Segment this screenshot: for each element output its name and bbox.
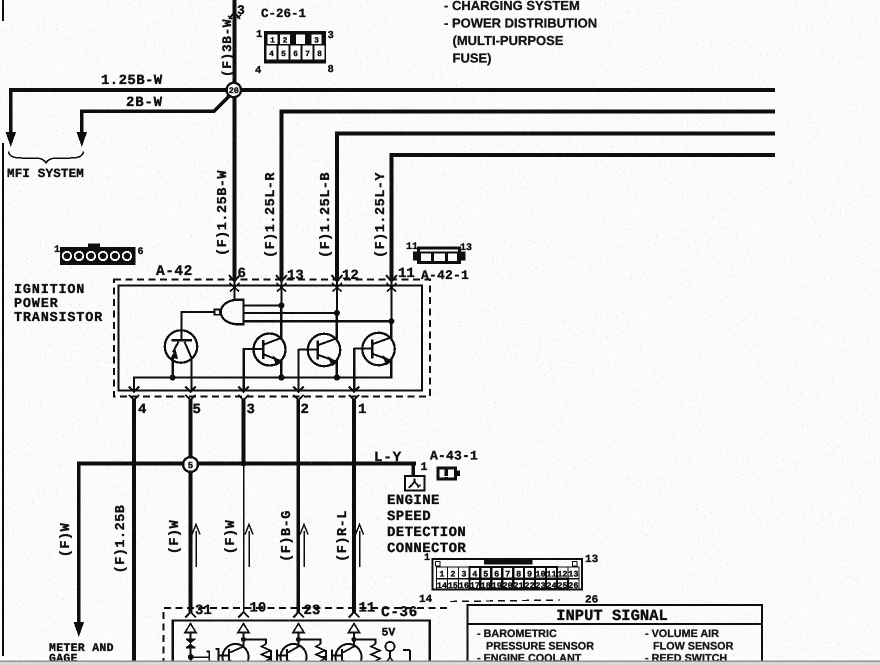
gate input square — [215, 309, 220, 314]
wire to MFI (left drop 2) — [77, 110, 88, 148]
connector A-42 icon — [54, 244, 144, 266]
transistor Q5 — [223, 644, 249, 665]
input arrow pin 31 inside C-36 — [185, 624, 196, 639]
wire pin2 down (F)B-G — [296, 399, 300, 614]
splice junction 5 — [183, 457, 198, 472]
Q4 collector wire from node D — [390, 321, 392, 339]
transistor Q7 — [336, 644, 362, 665]
pin number 1 — [358, 402, 366, 418]
wire label (F)1.25B — [114, 505, 129, 574]
node C junction dot — [334, 310, 340, 316]
node F junction dot (Q3 emitter/bus) — [334, 374, 340, 380]
MFI SYSTEM label — [7, 167, 84, 181]
INPUT SIGNAL entries — [477, 628, 734, 665]
zener diode pair on pin31 wire — [186, 638, 196, 655]
transistor Q2 — [254, 334, 286, 366]
legend text: charging system / power distribution — [444, 0, 597, 66]
pin 11 entry mark — [349, 612, 360, 618]
switch contact symbol near Q5 — [207, 649, 230, 663]
pin 23 entry mark — [293, 612, 304, 618]
pin 1 exit mark — [349, 387, 359, 400]
pin number 12 — [342, 268, 359, 284]
pin number 11 — [359, 601, 376, 617]
component name: IGNITION POWER TRANSISTOR — [14, 283, 103, 326]
wire drop to meter gauge — [74, 462, 85, 638]
pin 31 entry mark — [185, 612, 196, 618]
connector C-26-1 — [255, 29, 334, 77]
pin cells row2 — [267, 46, 277, 60]
pin 10 entry mark — [238, 612, 249, 618]
Q1 emitter wire to bus — [171, 356, 173, 379]
node K junction dot (pin11) — [351, 637, 356, 642]
pin 5 exit mark — [185, 387, 195, 400]
pin number 3 (top) — [237, 3, 245, 18]
contact symbol right — [403, 650, 410, 663]
Q3 base wire — [299, 348, 318, 350]
wire label 1.25B-W — [101, 73, 163, 89]
ENGINE SPEED DETECTION CONNECTOR label — [387, 493, 466, 557]
wire label (F)R-L — [336, 510, 351, 562]
node G junction dot (Q1 emitter/bus) — [170, 375, 176, 381]
connector A-43-1 name — [430, 449, 478, 464]
pin 3 exit mark — [238, 387, 248, 400]
page border left lower segment — [2, 143, 4, 656]
node D junction dot — [388, 318, 394, 324]
bottom page edge gray band — [0, 661, 880, 665]
pin number 3 — [247, 402, 255, 418]
node J junction dot (pin23) — [296, 637, 301, 642]
pin31 wire to switch contact — [191, 657, 209, 664]
gate output wire to node B (pin13 line) — [244, 304, 282, 306]
Q4 emitter wire to bus — [390, 360, 392, 379]
Q2 collector wire from node B — [280, 306, 282, 339]
wire pin3 down thick part — [242, 399, 246, 467]
connector A-42 name — [156, 264, 193, 280]
pin number 5 — [193, 402, 201, 418]
node H junction dot — [188, 654, 194, 660]
gate output wire to node D (pin11 line) — [244, 320, 392, 322]
INPUT SIGNAL box — [468, 605, 763, 665]
pin 1 wire inside box — [353, 348, 355, 391]
C-36 connector corner labels — [419, 553, 599, 607]
pin number 23 — [304, 603, 321, 619]
Q6 collector from pin23 node — [297, 639, 299, 648]
wire (F)3B-W vertical from top — [228, 0, 241, 280]
transistor Q6 — [281, 644, 307, 665]
A-42 dashed outline box — [114, 280, 430, 397]
METER AND GAGE label — [49, 642, 114, 665]
transistor Q3 — [308, 334, 340, 366]
wire label 2B-W — [126, 95, 163, 111]
direction arrow on wire 11 — [356, 525, 364, 568]
wire (F)1.25L-B horizontal top — [335, 131, 775, 279]
direction arrow on wire 31 — [192, 525, 200, 568]
Q5 collector from pin10 node — [242, 639, 244, 648]
direction arrow on wire 10 — [245, 525, 253, 568]
Q4 base wire — [354, 347, 374, 349]
Q1 collector wire to pin 5 — [190, 357, 192, 391]
pin number 13 — [287, 268, 304, 284]
pin number 10 — [250, 601, 267, 617]
emitter bus wire — [133, 376, 393, 378]
wire 2B-W horizontal — [80, 94, 231, 113]
pin number 6 — [238, 266, 246, 282]
bus drop to pin 4 — [133, 376, 135, 390]
direction arrow on wire 23 — [300, 525, 308, 568]
Q3 collector wire from node C — [336, 313, 338, 339]
connector A-42-1 name — [421, 268, 469, 283]
wire label (F)B-G — [280, 510, 295, 562]
input arrow pin 23 inside C-36 — [293, 624, 304, 639]
wire label (F)3B-W — [220, 19, 235, 77]
connector A-42-1 icon — [406, 242, 472, 264]
splice junction 20 — [227, 83, 241, 97]
wire (F)1.25L-R horizontal top — [280, 110, 776, 280]
C-36 solid box — [173, 621, 430, 665]
resistor R2 from node J — [299, 640, 326, 665]
C-36 pin grid row 1 pins 1-13 — [437, 567, 579, 580]
node I junction dot (pin10) — [241, 637, 246, 642]
wire pin4 to meter (F)1.25B — [132, 399, 136, 665]
pin 2 wire inside box — [297, 349, 299, 391]
wire label (F)1.25L-B — [319, 172, 334, 258]
resistor R3 from node K — [354, 640, 380, 665]
logic gate U1 — [215, 299, 245, 326]
node E junction dot (Q2 emitter/bus) — [278, 374, 284, 380]
Q2 base wire — [245, 348, 264, 350]
connector C-26-1 label — [261, 7, 306, 21]
pin cells row1 — [268, 35, 278, 45]
pin number 4 — [138, 402, 146, 418]
pin number 11 — [398, 266, 415, 282]
input arrow pin 11 inside C-36 — [349, 624, 360, 639]
5V supply label — [382, 627, 396, 640]
connector C-36 26-pin — [433, 559, 583, 590]
wire label (F)1.25B-W — [216, 170, 231, 256]
wire 1.25B-W horizontal bus — [9, 88, 775, 92]
pin 6 entry arrow — [229, 275, 240, 300]
INPUT SIGNAL title — [556, 607, 668, 625]
contact symbol near Q7 — [321, 650, 342, 664]
A-43-1 terminal symbol — [405, 476, 425, 491]
wire pin3 down thin part (F)W — [243, 466, 245, 614]
input arrow pin 10 inside C-36 — [238, 624, 249, 639]
wire to MFI (left drop 1) — [6, 88, 17, 147]
pin 4 exit mark — [129, 387, 139, 400]
wire (F)1.25L-Y horizontal top — [390, 153, 776, 279]
C-36 dashed outline top — [164, 600, 561, 665]
L-Y wire horizontal — [77, 462, 416, 477]
page border left top segment — [2, 0, 4, 21]
A-42 solid box — [119, 286, 423, 391]
wire label (F)1.25L-Y — [374, 172, 389, 258]
pin 13 entry arrow — [276, 275, 287, 306]
transistor Q4 — [362, 333, 394, 365]
wire label (F)W — [224, 519, 239, 554]
node B junction dot — [278, 303, 284, 309]
connector A-43-1 icon — [437, 467, 461, 481]
pin 2 exit mark — [293, 387, 303, 400]
gate output wire to node C (pin12 line) — [244, 312, 337, 314]
pin 11 entry arrow — [386, 275, 397, 322]
transistor Q1 — [165, 330, 197, 362]
contact symbol near Q6 — [266, 650, 287, 664]
Q2 emitter wire to bus — [280, 360, 282, 379]
Q7 collector from pin11 node — [353, 639, 355, 648]
pin 12 entry arrow — [332, 275, 343, 314]
pin number 2 — [301, 402, 309, 418]
connector C-36 name — [381, 605, 418, 621]
wire label (F)W — [59, 522, 74, 557]
pin 3 arrow entering top connector — [229, 12, 240, 19]
resistor R1 from node I — [244, 640, 271, 665]
brace under MFI arrows — [9, 152, 84, 164]
wire label (F)W — [168, 519, 183, 554]
wire pin1 down (F)R-L — [352, 399, 356, 614]
Q3 emitter wire to bus — [336, 361, 338, 379]
5V terminal — [385, 642, 395, 664]
pin 1 label of A-43-1 — [421, 461, 428, 474]
wire pin5 down (F)W — [189, 399, 193, 614]
gate input wire to Q1 — [181, 312, 214, 341]
wire label L-Y — [374, 450, 402, 466]
C-36 pin grid row 2 pins 14-26 — [437, 579, 579, 591]
pin 3 wire inside box — [243, 348, 245, 391]
pin number 31 — [195, 603, 212, 619]
wire label (F)1.25L-R — [264, 172, 279, 258]
